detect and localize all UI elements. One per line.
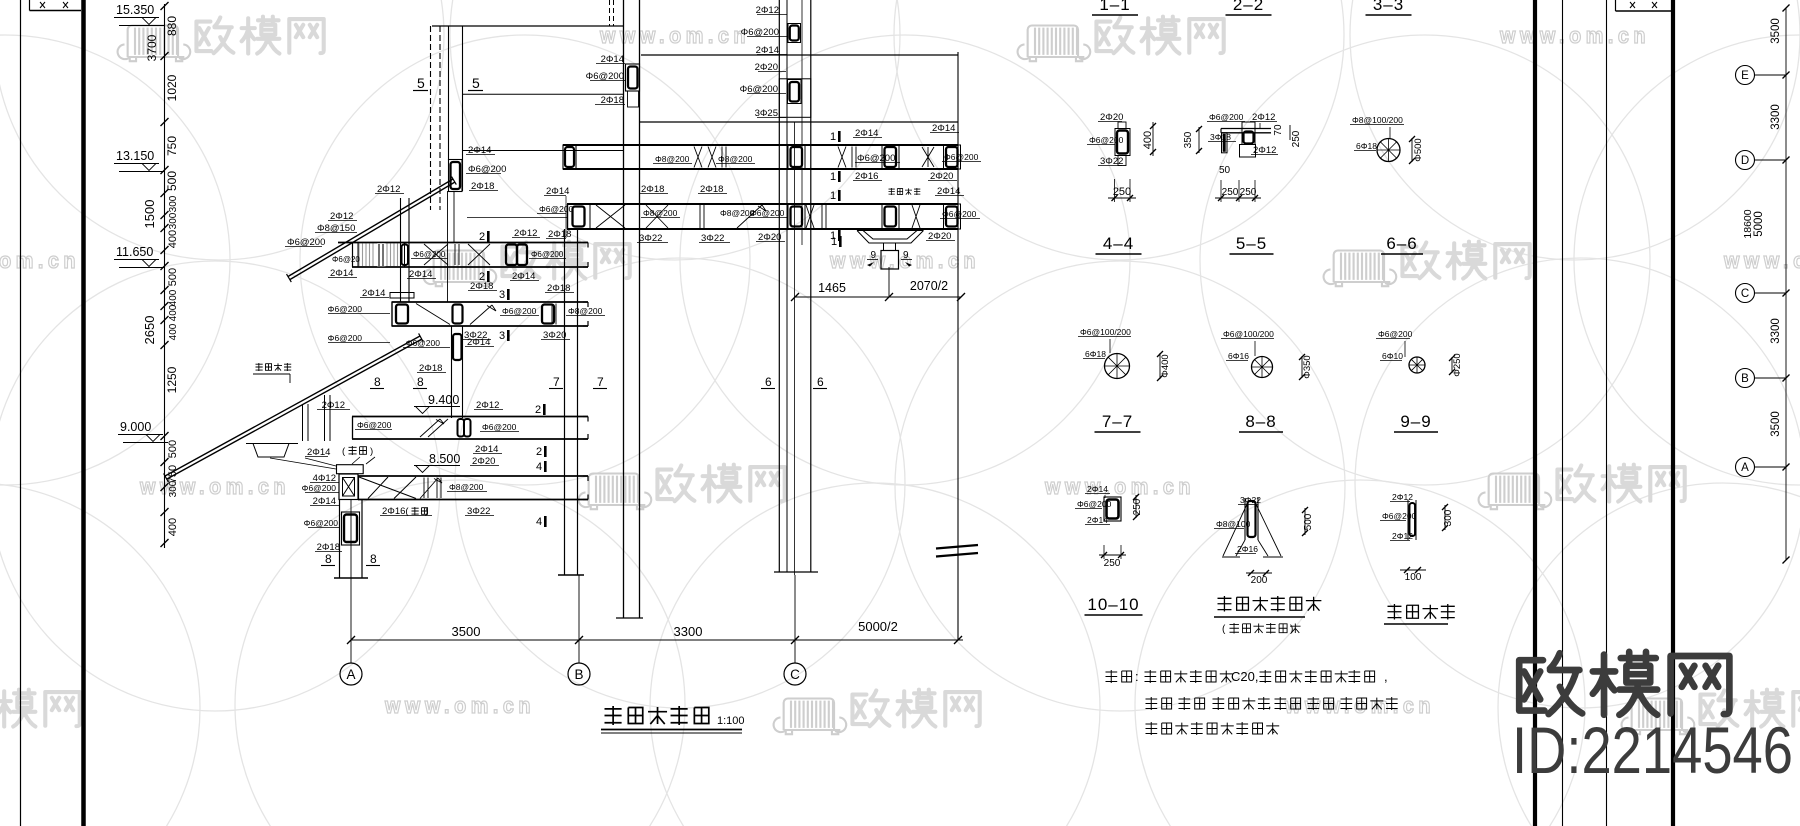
svg-text:,: , bbox=[1384, 669, 1388, 684]
svg-text:6Φ18: 6Φ18 bbox=[1085, 349, 1106, 359]
svg-text:750: 750 bbox=[165, 136, 179, 156]
svg-text:Φ6@200: Φ6@200 bbox=[539, 204, 574, 214]
svg-text:Φ6@200: Φ6@200 bbox=[502, 306, 537, 316]
svg-text:Φ6@200: Φ6@200 bbox=[531, 250, 564, 259]
svg-text:C: C bbox=[790, 667, 800, 682]
svg-text:8: 8 bbox=[325, 552, 332, 566]
svg-text:3700: 3700 bbox=[145, 34, 159, 61]
svg-text:Φ6@200: Φ6@200 bbox=[944, 152, 979, 162]
svg-text:400: 400 bbox=[1142, 131, 1154, 149]
svg-text:Φ6@200: Φ6@200 bbox=[328, 304, 363, 314]
svg-text:2Φ14: 2Φ14 bbox=[1087, 515, 1108, 525]
svg-text:Φ6@200: Φ6@200 bbox=[1209, 112, 1244, 122]
svg-text:2: 2 bbox=[479, 271, 485, 283]
svg-text:9.400: 9.400 bbox=[428, 393, 459, 407]
svg-text:Φ8@200: Φ8@200 bbox=[718, 154, 753, 164]
svg-text:6: 6 bbox=[765, 375, 772, 389]
svg-text:www.om.cn: www.om.cn bbox=[599, 23, 750, 48]
svg-text:2Φ12: 2Φ12 bbox=[1392, 492, 1413, 502]
svg-text:250: 250 bbox=[1113, 186, 1131, 198]
svg-text:Φ350: Φ350 bbox=[1302, 355, 1313, 378]
svg-text:): ) bbox=[370, 446, 373, 457]
svg-text:www.om.cn: www.om.cn bbox=[384, 693, 535, 718]
svg-text:8: 8 bbox=[374, 375, 381, 389]
svg-text:100: 100 bbox=[1405, 572, 1422, 583]
svg-text:5000: 5000 bbox=[1753, 211, 1765, 237]
svg-text:Φ250: Φ250 bbox=[1452, 353, 1463, 376]
svg-text:A: A bbox=[1741, 462, 1749, 474]
svg-text:3500: 3500 bbox=[1770, 411, 1782, 437]
svg-text:9–9: 9–9 bbox=[1400, 412, 1431, 431]
svg-text:B: B bbox=[1741, 373, 1749, 385]
svg-text:8–8: 8–8 bbox=[1245, 412, 1276, 431]
svg-text:Φ6@200: Φ6@200 bbox=[1378, 329, 1413, 339]
svg-text:A: A bbox=[346, 667, 355, 682]
svg-text:3500: 3500 bbox=[1770, 18, 1782, 44]
svg-text:880: 880 bbox=[165, 16, 179, 36]
svg-text:400: 400 bbox=[167, 230, 179, 248]
svg-text:Φ6@200: Φ6@200 bbox=[942, 209, 977, 219]
svg-text:2Φ14: 2Φ14 bbox=[1087, 484, 1108, 494]
svg-text:Φ500: Φ500 bbox=[1413, 138, 1424, 161]
svg-text:250: 250 bbox=[1222, 187, 1239, 198]
svg-text:1250: 1250 bbox=[165, 366, 179, 393]
svg-text:300: 300 bbox=[168, 195, 179, 212]
svg-text:9.000: 9.000 bbox=[120, 420, 151, 434]
svg-text:www.om.cn: www.om.cn bbox=[1044, 474, 1195, 499]
svg-text:2: 2 bbox=[479, 231, 485, 243]
svg-text:3Φ22: 3Φ22 bbox=[1240, 495, 1261, 505]
svg-text:250: 250 bbox=[1132, 498, 1143, 515]
svg-text:50: 50 bbox=[1219, 165, 1231, 176]
svg-text:3Φ18: 3Φ18 bbox=[1210, 132, 1231, 142]
svg-text:Φ6@200: Φ6@200 bbox=[302, 483, 337, 493]
svg-text:Φ8@200: Φ8@200 bbox=[449, 482, 484, 492]
svg-text:4: 4 bbox=[536, 516, 542, 528]
svg-text:3500: 3500 bbox=[452, 624, 481, 639]
svg-text:250: 250 bbox=[1240, 187, 1257, 198]
svg-text:13.150: 13.150 bbox=[116, 149, 154, 163]
svg-text:Φ6@200: Φ6@200 bbox=[1089, 135, 1124, 145]
svg-text:15.350: 15.350 bbox=[116, 3, 154, 17]
svg-text:400: 400 bbox=[168, 323, 179, 340]
svg-text:400: 400 bbox=[167, 518, 179, 536]
svg-text:300: 300 bbox=[168, 212, 179, 229]
svg-text:1465: 1465 bbox=[818, 281, 846, 295]
svg-text:,: , bbox=[1268, 697, 1271, 711]
svg-text:Φ6@100/200: Φ6@100/200 bbox=[1223, 329, 1274, 339]
svg-text:6–6: 6–6 bbox=[1386, 234, 1417, 253]
svg-text:www.om.cn: www.om.cn bbox=[139, 474, 290, 499]
svg-text:7: 7 bbox=[597, 375, 604, 389]
svg-text:1: 1 bbox=[830, 131, 836, 143]
svg-text:3: 3 bbox=[499, 289, 505, 301]
svg-text:250: 250 bbox=[1291, 130, 1302, 147]
svg-text:D: D bbox=[1741, 155, 1749, 167]
svg-text:300: 300 bbox=[168, 480, 179, 497]
svg-text:6Φ18: 6Φ18 bbox=[1356, 141, 1377, 151]
svg-text:Φ6@200: Φ6@200 bbox=[750, 208, 785, 218]
svg-text:www.om.cn: www.om.cn bbox=[1284, 693, 1435, 718]
svg-text:Φ6@200: Φ6@200 bbox=[413, 250, 446, 259]
svg-text:www.om.cn: www.om.cn bbox=[0, 248, 80, 273]
svg-text:8: 8 bbox=[370, 552, 377, 566]
svg-text:Φ6@200: Φ6@200 bbox=[304, 518, 339, 528]
svg-text:200: 200 bbox=[1251, 575, 1268, 586]
svg-text:2070/2: 2070/2 bbox=[910, 279, 948, 293]
svg-text:1:100: 1:100 bbox=[717, 715, 745, 727]
svg-text:1: 1 bbox=[830, 190, 836, 202]
svg-text:3: 3 bbox=[499, 330, 505, 342]
svg-text:7–7: 7–7 bbox=[1102, 412, 1133, 431]
svg-text:1–1: 1–1 bbox=[1099, 0, 1130, 14]
svg-text:7: 7 bbox=[553, 375, 560, 389]
svg-text:E: E bbox=[1741, 70, 1749, 82]
svg-text:3–3: 3–3 bbox=[1373, 0, 1404, 14]
svg-text:1: 1 bbox=[830, 171, 836, 183]
svg-text:300: 300 bbox=[1443, 509, 1454, 526]
svg-text:400: 400 bbox=[168, 289, 179, 306]
svg-text:500: 500 bbox=[165, 171, 179, 191]
svg-text:C: C bbox=[1741, 288, 1749, 300]
svg-text:3300: 3300 bbox=[674, 624, 703, 639]
svg-text:2650: 2650 bbox=[142, 316, 157, 345]
svg-text:Φ6@200: Φ6@200 bbox=[482, 422, 517, 432]
svg-text:2Φ16: 2Φ16 bbox=[1237, 544, 1258, 554]
svg-text:B: B bbox=[574, 667, 583, 682]
svg-text:Φ400: Φ400 bbox=[1160, 354, 1171, 377]
svg-text:): ) bbox=[1290, 624, 1293, 635]
svg-text:Φ8@100: Φ8@100 bbox=[1216, 519, 1251, 529]
svg-text:Φ6@200: Φ6@200 bbox=[1077, 499, 1112, 509]
svg-text:Φ8@200: Φ8@200 bbox=[655, 154, 690, 164]
svg-text:Φ6@200: Φ6@200 bbox=[357, 420, 392, 430]
svg-text:2Φ12: 2Φ12 bbox=[1392, 531, 1413, 541]
svg-text:Φ6@20: Φ6@20 bbox=[332, 255, 360, 264]
svg-text:Φ8@200: Φ8@200 bbox=[568, 306, 603, 316]
svg-text:6Φ10: 6Φ10 bbox=[1382, 351, 1403, 361]
svg-text:www.om.cn: www.om.cn bbox=[1723, 248, 1800, 273]
svg-text:8: 8 bbox=[417, 375, 424, 389]
svg-text::: : bbox=[1135, 669, 1139, 684]
svg-text:8.500: 8.500 bbox=[429, 452, 460, 466]
svg-text:Φ6@200: Φ6@200 bbox=[406, 338, 441, 348]
svg-text:350: 350 bbox=[1183, 131, 1194, 148]
svg-text:Φ6@200: Φ6@200 bbox=[1382, 511, 1417, 521]
svg-text:Φ8@100/200: Φ8@100/200 bbox=[1352, 115, 1403, 125]
svg-text:70: 70 bbox=[1273, 124, 1284, 136]
svg-text:500: 500 bbox=[167, 268, 179, 286]
svg-text:6: 6 bbox=[817, 375, 824, 389]
svg-text:3300: 3300 bbox=[1770, 318, 1782, 344]
svg-text:400: 400 bbox=[168, 304, 179, 321]
svg-text:5–5: 5–5 bbox=[1236, 234, 1267, 253]
svg-text:500: 500 bbox=[1303, 513, 1314, 530]
svg-text:1500: 1500 bbox=[142, 200, 157, 229]
svg-text:.: . bbox=[1272, 722, 1275, 736]
svg-text:5000/2: 5000/2 bbox=[858, 619, 898, 634]
svg-text:4: 4 bbox=[536, 461, 542, 473]
svg-text:11.650: 11.650 bbox=[116, 245, 153, 259]
svg-text:ID:2214546: ID:2214546 bbox=[1512, 713, 1793, 787]
svg-text:500: 500 bbox=[167, 440, 179, 458]
svg-text:C20,: C20, bbox=[1231, 669, 1258, 684]
svg-text:Φ8@200: Φ8@200 bbox=[643, 208, 678, 218]
svg-text:10–10: 10–10 bbox=[1087, 595, 1139, 614]
svg-text:2: 2 bbox=[535, 404, 541, 416]
svg-text:5: 5 bbox=[417, 75, 425, 91]
svg-text:www.om.cn: www.om.cn bbox=[1499, 23, 1650, 48]
svg-text:Φ6@200: Φ6@200 bbox=[328, 333, 363, 343]
svg-text:1020: 1020 bbox=[165, 74, 179, 101]
svg-text:6Φ16: 6Φ16 bbox=[1228, 351, 1249, 361]
svg-text:2: 2 bbox=[536, 446, 542, 458]
svg-text:2–2: 2–2 bbox=[1233, 0, 1264, 14]
svg-text:3300: 3300 bbox=[1770, 104, 1782, 130]
svg-text:Φ6@100/200: Φ6@100/200 bbox=[1080, 327, 1131, 337]
svg-text:1: 1 bbox=[831, 236, 837, 248]
svg-text:4–4: 4–4 bbox=[1103, 234, 1134, 253]
svg-text:250: 250 bbox=[1104, 558, 1121, 569]
svg-text:5: 5 bbox=[472, 75, 480, 91]
